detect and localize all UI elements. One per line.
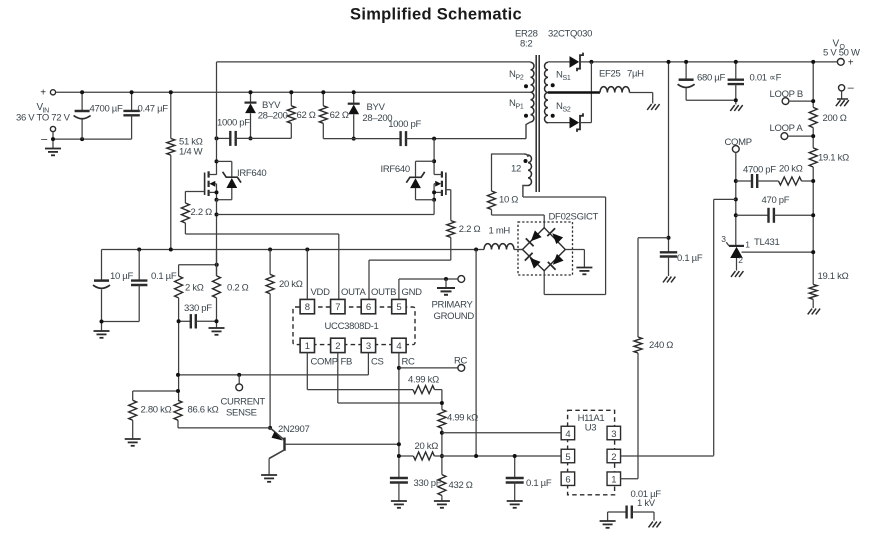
svg-text:330 pF: 330 pF [184,303,212,314]
svg-text:5 V 50 W: 5 V 50 W [823,48,860,59]
svg-text:3: 3 [611,429,616,440]
svg-text:S1: S1 [563,75,571,82]
svg-text:2: 2 [335,341,340,352]
svg-text:432 Ω: 432 Ω [449,480,473,491]
svg-text:0.47 µF: 0.47 µF [138,104,169,115]
svg-text:5: 5 [565,452,570,463]
svg-text:12: 12 [511,164,521,175]
svg-text:0.2 Ω: 0.2 Ω [227,283,249,294]
svg-text:OUTA: OUTA [341,287,366,298]
svg-text:LOOP B: LOOP B [770,89,803,100]
svg-text:2 kΩ: 2 kΩ [185,283,204,294]
svg-text:2: 2 [738,255,743,265]
svg-text:U3: U3 [585,423,597,434]
svg-text:S2: S2 [563,107,571,114]
svg-text:CS: CS [371,357,384,368]
svg-text:8: 8 [305,302,310,313]
svg-text:GND: GND [402,287,423,298]
svg-text:DF02SGICT: DF02SGICT [549,212,599,223]
svg-text:0.1 µF: 0.1 µF [677,253,703,264]
svg-text:+: + [848,58,854,69]
svg-text:1: 1 [305,341,310,352]
svg-text:1000 pF: 1000 pF [217,118,250,129]
svg-text:2.2 Ω: 2.2 Ω [459,224,481,235]
svg-text:3: 3 [366,341,371,352]
svg-text:4.99 kΩ: 4.99 kΩ [408,375,439,386]
svg-text:20 kΩ: 20 kΩ [415,441,439,452]
svg-text:GROUND: GROUND [434,311,475,322]
svg-text:8:2: 8:2 [520,39,532,50]
svg-text:6: 6 [366,302,371,313]
svg-text:0.1 µF: 0.1 µF [151,271,177,282]
svg-text:1: 1 [611,475,616,486]
svg-text:19.1 kΩ: 19.1 kΩ [818,153,849,164]
svg-text:240 Ω: 240 Ω [649,340,673,351]
svg-text:4: 4 [565,429,570,440]
svg-text:4700 pF: 4700 pF [743,165,776,176]
svg-text:LOOP A: LOOP A [770,123,804,134]
svg-text:FB: FB [341,357,353,368]
svg-text:2: 2 [611,452,616,463]
svg-text:7: 7 [335,302,340,313]
svg-text:3: 3 [721,234,726,244]
svg-text:RC: RC [454,355,468,366]
svg-text:1 mH: 1 mH [489,226,511,237]
svg-text:5: 5 [396,302,401,313]
svg-text:1 kV: 1 kV [637,498,656,509]
svg-text:4700 µF: 4700 µF [90,103,123,114]
svg-text:7µH: 7µH [627,69,644,80]
svg-text:1/4 W: 1/4 W [179,147,203,158]
svg-text:6: 6 [565,475,570,486]
svg-text:IRF640: IRF640 [237,168,266,179]
svg-text:20 kΩ: 20 kΩ [779,164,803,175]
svg-text:680 µF: 680 µF [697,73,725,84]
svg-text:SENSE: SENSE [226,408,257,419]
svg-text:28–200: 28–200 [258,111,288,122]
svg-text:2N2907: 2N2907 [278,424,309,435]
svg-text:+: + [40,88,46,99]
svg-text:TL431: TL431 [754,237,779,248]
svg-text:IRF640: IRF640 [381,164,410,175]
svg-text:62 Ω: 62 Ω [297,110,316,121]
svg-text:PRIMARY: PRIMARY [432,300,474,311]
svg-text:BYV: BYV [262,100,281,111]
svg-text:36 V TO 72 V: 36 V TO 72 V [16,113,71,124]
svg-text:19.1 kΩ: 19.1 kΩ [818,271,849,282]
svg-text:0.1 µF: 0.1 µF [526,478,552,489]
svg-text:VDD: VDD [311,287,331,298]
svg-text:4: 4 [396,341,401,352]
svg-text:2.80 kΩ: 2.80 kΩ [141,405,172,416]
svg-text:EF25: EF25 [599,69,621,80]
svg-text:RC: RC [402,357,416,368]
svg-text:86.6 kΩ: 86.6 kΩ [188,405,219,416]
svg-text:10 Ω: 10 Ω [499,195,518,206]
svg-text:0.01 ∝F: 0.01 ∝F [750,72,782,83]
svg-text:470 pF: 470 pF [762,195,790,206]
svg-text:CURRENT: CURRENT [221,396,266,407]
svg-text:2.2 Ω: 2.2 Ω [191,207,213,218]
svg-text:1000 pF: 1000 pF [388,119,421,130]
svg-text:Simplified Schematic: Simplified Schematic [350,6,522,24]
svg-text:UCC3808D-1: UCC3808D-1 [324,321,378,332]
svg-text:4.99 kΩ: 4.99 kΩ [447,413,478,424]
svg-text:200 Ω: 200 Ω [823,113,847,124]
svg-text:10 µF: 10 µF [110,271,133,282]
svg-text:62 Ω: 62 Ω [330,110,349,121]
svg-text:32CTQ030: 32CTQ030 [548,29,592,40]
svg-text:OUTB: OUTB [371,287,396,298]
svg-text:P2: P2 [516,75,524,82]
svg-text:BYV: BYV [367,102,386,113]
svg-text:1: 1 [745,240,750,250]
svg-text:P1: P1 [516,104,524,111]
svg-text:COMP: COMP [311,357,338,368]
svg-text:20 kΩ: 20 kΩ [279,279,303,290]
